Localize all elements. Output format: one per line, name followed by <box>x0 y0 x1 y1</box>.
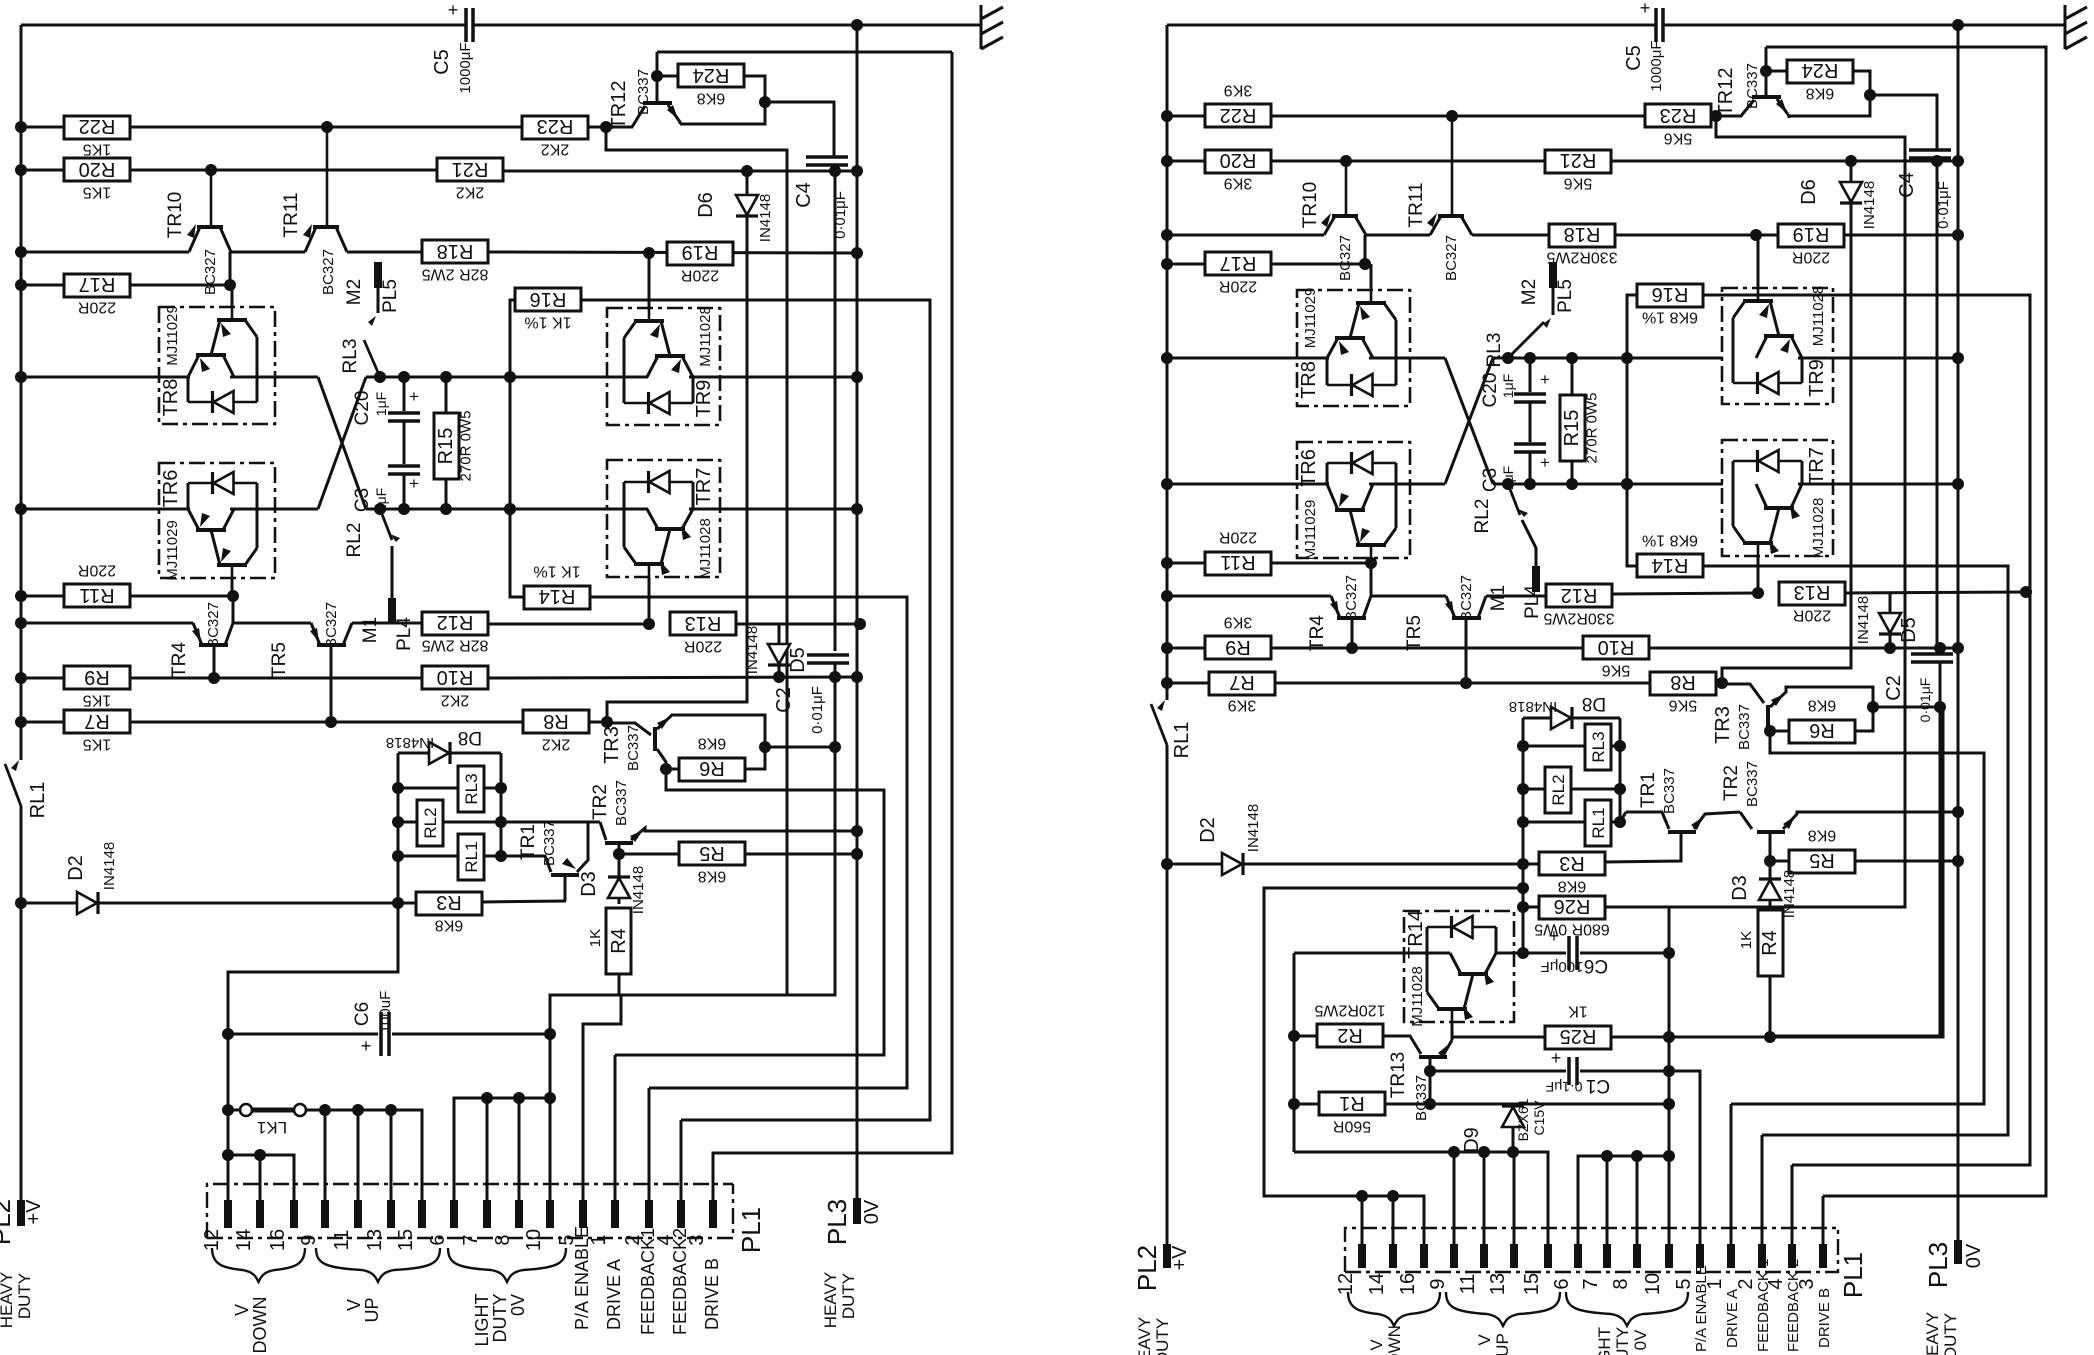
connector PL1 outline <box>207 1184 733 1238</box>
svg-text:TR8: TR8 <box>160 379 182 417</box>
svg-text:D2: D2 <box>1197 817 1219 843</box>
transistor TR9 block <box>607 308 720 425</box>
svg-text:C4: C4 <box>1896 172 1918 198</box>
svg-text:+: + <box>361 1036 372 1056</box>
resistor R25 <box>1545 1026 1611 1049</box>
svg-text:+: + <box>409 474 419 493</box>
svg-text:TR7: TR7 <box>693 468 715 506</box>
svg-text:TR5: TR5 <box>1404 615 1425 651</box>
svg-text:6K8 1%: 6K8 1% <box>1642 309 1698 326</box>
transistor TR7 block <box>1722 440 1833 556</box>
svg-text:TR11: TR11 <box>1406 182 1427 227</box>
svg-text:IN4818: IN4818 <box>386 734 434 751</box>
relay coil RL2 <box>398 821 417 824</box>
svg-text:D3: D3 <box>1729 875 1751 901</box>
wire R9/R10 row y648 right <box>1167 647 1205 650</box>
transistor TR11 <box>1430 216 1441 235</box>
transistor TR14 block <box>1404 911 1514 1022</box>
wire row y235 right <box>1167 234 1324 237</box>
svg-text:6K8: 6K8 <box>435 917 464 934</box>
svg-text:BC337: BC337 <box>613 780 630 826</box>
svg-text:5: 5 <box>1673 1278 1695 1289</box>
svg-text:R20: R20 <box>1220 149 1257 171</box>
resistor R16 <box>515 288 581 311</box>
wire pin4 feedback2 <box>680 1120 683 1200</box>
brace <box>1348 1292 1440 1326</box>
resistor R19 <box>667 242 733 265</box>
svg-text:R8: R8 <box>543 710 569 732</box>
resistor R8 <box>523 710 589 733</box>
svg-text:DUTY: DUTY <box>839 1273 858 1319</box>
svg-text:TR1: TR1 <box>518 824 539 860</box>
svg-text:TR7: TR7 <box>1806 447 1828 485</box>
svg-text:R3: R3 <box>436 891 462 913</box>
wire TR3 node to drive A drop x884 <box>615 769 884 1055</box>
svg-text:RL1: RL1 <box>1589 807 1608 838</box>
svg-text:R7: R7 <box>1229 671 1255 693</box>
svg-text:12: 12 <box>201 1229 223 1251</box>
svg-text:R20: R20 <box>79 158 116 180</box>
svg-text:5K6: 5K6 <box>1669 697 1698 714</box>
svg-text:220R: 220R <box>1219 278 1257 295</box>
svg-text:C3: C3 <box>1480 468 1501 492</box>
svg-text:TR11: TR11 <box>281 192 302 237</box>
svg-text:+V: +V <box>23 1199 45 1225</box>
transistor TR3 <box>653 727 657 751</box>
relay contact RL3 <box>377 288 380 313</box>
svg-text:R6: R6 <box>1809 719 1835 741</box>
resistor R22 <box>64 116 130 139</box>
resistor R7 <box>64 710 130 733</box>
svg-text:MJ11028: MJ11028 <box>1409 966 1426 1027</box>
right schematic: +V bus <box>1166 25 1169 700</box>
svg-text:220R: 220R <box>78 562 116 579</box>
brace <box>448 1248 566 1282</box>
svg-text:D5: D5 <box>787 647 809 673</box>
wire C2 to junction rail y995 <box>550 677 835 1200</box>
svg-text:11: 11 <box>331 1230 353 1251</box>
svg-text:V: V <box>232 1304 252 1316</box>
connector pins <box>224 1200 232 1228</box>
resistor R24 <box>678 64 744 87</box>
wire R20 row y161 right <box>1167 160 1205 163</box>
svg-text:DUTY: DUTY <box>490 1294 510 1343</box>
svg-text:R23: R23 <box>1660 104 1697 126</box>
svg-text:RL3: RL3 <box>462 773 481 804</box>
svg-text:BC337: BC337 <box>1413 1075 1430 1121</box>
svg-text:2: 2 <box>1735 1278 1757 1289</box>
svg-text:R5: R5 <box>1809 849 1835 871</box>
svg-text:7: 7 <box>1580 1278 1602 1289</box>
wire R7/R8 row y722 <box>21 721 64 724</box>
transistor TR6 block <box>1297 442 1410 558</box>
svg-text:BC327: BC327 <box>1337 235 1354 281</box>
svg-text:+: + <box>1549 926 1560 946</box>
link LK1 <box>222 1104 234 1116</box>
svg-text:PL1: PL1 <box>736 1207 766 1253</box>
transistor TR4 <box>232 596 235 623</box>
svg-text:R17: R17 <box>79 273 116 295</box>
svg-text:D3: D3 <box>578 871 600 897</box>
svg-text:120R2W5: 120R2W5 <box>1314 1002 1385 1019</box>
svg-text:R26: R26 <box>1554 895 1591 917</box>
svg-text:1μF: 1μF <box>373 488 389 512</box>
svg-text:R16: R16 <box>530 288 567 310</box>
resistor R12 <box>422 612 488 635</box>
wire RL2 row to TR1/TR2 <box>501 821 600 824</box>
svg-text:MJ11029: MJ11029 <box>1302 500 1319 561</box>
plug PL5 / M2 right <box>1549 262 1557 288</box>
resistor R6 <box>679 758 745 781</box>
svg-text:D5: D5 <box>1898 617 1920 643</box>
wire crossover X <box>318 377 366 509</box>
resistor R6 loop <box>660 763 672 775</box>
transistor TR6 block <box>159 463 275 578</box>
svg-text:PL1: PL1 <box>1838 1252 1868 1298</box>
relay coil RL2 right <box>1523 788 1545 791</box>
wire R16 row to feedback drop x930 <box>580 300 930 1120</box>
svg-text:3K9: 3K9 <box>1224 175 1253 192</box>
wire coil rail down to R26/C6 <box>1522 864 1525 953</box>
svg-text:11: 11 <box>1457 1274 1479 1295</box>
wire TR12 base to drop x1905 <box>1608 116 1905 907</box>
svg-text:TR4: TR4 <box>169 642 190 678</box>
resistor R11 <box>1205 552 1271 575</box>
svg-text:TR6: TR6 <box>160 470 182 508</box>
svg-text:RL3: RL3 <box>340 339 361 374</box>
svg-text:BC327: BC327 <box>1443 235 1460 281</box>
svg-text:BC337: BC337 <box>635 69 652 115</box>
svg-text:PL4: PL4 <box>1522 585 1543 619</box>
resistor R18 <box>1549 224 1615 247</box>
svg-text:TR6: TR6 <box>1298 449 1320 487</box>
resistor R9 <box>1205 636 1271 659</box>
wire TR9 base from R19 row <box>648 253 651 308</box>
svg-text:RL2: RL2 <box>421 807 440 838</box>
connector PL3 pin <box>853 1198 861 1224</box>
wire row y623 with R12 R13 <box>21 622 193 625</box>
svg-text:BC337: BC337 <box>1744 63 1761 109</box>
svg-text:D8: D8 <box>458 727 482 748</box>
wire TR6 base to R11 row <box>231 578 234 596</box>
svg-text:560R: 560R <box>1333 1118 1371 1135</box>
svg-text:9: 9 <box>1427 1278 1449 1289</box>
wire pin2 feedback1 right <box>1761 1135 1764 1244</box>
wire emitter-collector row y252 <box>21 251 189 254</box>
svg-text:IN4148: IN4148 <box>744 626 761 674</box>
svg-text:13: 13 <box>1487 1273 1509 1295</box>
svg-text:BZX61: BZX61 <box>1515 1098 1531 1141</box>
wire R16 row to feedback2 drop right <box>1703 295 2030 1165</box>
svg-text:C5: C5 <box>1623 45 1645 71</box>
resistor R13 <box>670 612 736 635</box>
svg-text:R6: R6 <box>699 757 725 779</box>
transistor TR1 right <box>1668 830 1696 834</box>
wire top +V rail right <box>1167 24 1656 27</box>
wire pin4 feedback2 right <box>1791 1165 1794 1244</box>
resistor R14 <box>524 586 590 609</box>
svg-text:DUTY: DUTY <box>1941 1313 1960 1355</box>
svg-text:R15: R15 <box>1561 410 1583 447</box>
resistor R15 right <box>1571 358 1574 395</box>
resistor R15 <box>445 377 448 413</box>
svg-text:0·1μF: 0·1μF <box>1546 1079 1583 1095</box>
svg-text:+: + <box>409 387 419 406</box>
svg-text:RL2: RL2 <box>344 523 365 558</box>
svg-text:R4: R4 <box>1759 930 1781 956</box>
brace <box>1566 1292 1688 1326</box>
transistor TR9 block <box>1722 288 1833 404</box>
svg-text:V: V <box>1367 1339 1386 1351</box>
svg-text:1K 1%: 1K 1% <box>524 314 571 331</box>
svg-text:TR12: TR12 <box>1715 68 1737 117</box>
svg-text:PL2: PL2 <box>1132 1245 1162 1291</box>
svg-text:5K6: 5K6 <box>1564 175 1593 192</box>
wire C1 row <box>1424 1065 1436 1077</box>
wire V-down feed jog right <box>1264 888 1523 1244</box>
svg-text:1K: 1K <box>1738 931 1755 949</box>
svg-text:M1: M1 <box>1488 585 1509 611</box>
svg-text:R22: R22 <box>1220 104 1257 126</box>
capacitor C3 right <box>1529 402 1532 442</box>
resistor R4 <box>606 908 631 974</box>
plug PL5 / M2 <box>374 262 382 288</box>
connector PL3 pin right <box>1954 1240 1962 1264</box>
capacitor C20 <box>403 377 406 411</box>
transistor TR5 right <box>1452 616 1481 620</box>
wire TR8 base from R17 row <box>231 285 234 307</box>
diode D2 <box>21 902 77 905</box>
svg-text:220R: 220R <box>684 638 722 655</box>
0V bus right <box>1957 25 1960 1240</box>
svg-text:R14: R14 <box>1652 554 1689 576</box>
resistor R20 <box>1205 150 1271 173</box>
svg-text:DUTY: DUTY <box>1153 1318 1172 1355</box>
svg-text:TR10: TR10 <box>165 192 186 238</box>
svg-text:9: 9 <box>298 1234 320 1245</box>
wire TR3 node to drive A drop right <box>1731 731 1984 1104</box>
resistor R2 <box>1317 1024 1383 1047</box>
resistor R5 <box>679 842 745 865</box>
svg-text:LIGHT: LIGHT <box>472 1293 492 1346</box>
transistor TR2 right <box>1757 830 1785 834</box>
svg-text:R17: R17 <box>1220 252 1257 274</box>
wire light duty rail right <box>1578 1156 1669 1244</box>
svg-text:RL1: RL1 <box>462 841 481 872</box>
svg-text:6: 6 <box>427 1234 449 1245</box>
svg-text:TR8: TR8 <box>1298 361 1320 399</box>
zener diode D9 <box>1502 1107 1524 1127</box>
svg-text:P/A ENABLE: P/A ENABLE <box>572 1226 592 1330</box>
resistor R15 <box>1560 395 1585 461</box>
brace <box>1446 1292 1560 1326</box>
svg-text:R10: R10 <box>1598 636 1635 658</box>
svg-text:R11: R11 <box>79 584 114 606</box>
svg-text:DUTY: DUTY <box>15 1273 34 1319</box>
svg-text:1μF: 1μF <box>1500 374 1516 398</box>
svg-text:220R: 220R <box>1219 529 1257 546</box>
diode D8 <box>398 752 429 755</box>
resistor row R22 y127 <box>21 126 64 129</box>
wire R9/R10 row y678 <box>21 677 64 680</box>
wire R17 row y285 <box>21 284 64 287</box>
svg-text:D6: D6 <box>695 192 717 218</box>
svg-text:PL3: PL3 <box>822 1199 852 1245</box>
resistor R26 <box>1539 896 1605 919</box>
svg-text:330R2W5: 330R2W5 <box>1543 610 1614 627</box>
wire R24 node to C4 <box>765 102 834 157</box>
svg-text:IN4818: IN4818 <box>1509 698 1557 715</box>
svg-text:12: 12 <box>1335 1273 1357 1295</box>
wire: TR12 collector bus y52 <box>657 51 952 54</box>
svg-text:R7: R7 <box>84 710 110 732</box>
transistor TR3 right <box>1766 705 1770 729</box>
svg-text:2K2: 2K2 <box>542 736 571 753</box>
relay coil RL1 <box>398 855 458 858</box>
svg-text:6K8: 6K8 <box>1558 878 1587 895</box>
resistor R21 <box>1545 150 1611 173</box>
transistor TR10 <box>1324 216 1335 235</box>
svg-text:M1: M1 <box>360 617 381 643</box>
capacitor C2 <box>834 171 837 651</box>
resistor R15 <box>434 413 459 479</box>
svg-text:+: + <box>1551 1048 1562 1068</box>
resistor R14 right <box>1627 484 1637 566</box>
svg-text:R12: R12 <box>1561 584 1598 606</box>
svg-text:UP: UP <box>1493 1333 1512 1355</box>
svg-text:+V: +V <box>1169 1245 1191 1271</box>
svg-text:0·01μF: 0·01μF <box>809 686 826 734</box>
wire R1 row <box>1288 1098 1300 1110</box>
svg-text:680R 0W5: 680R 0W5 <box>1534 921 1610 938</box>
svg-text:6: 6 <box>1551 1278 1573 1289</box>
capacitor C4 right <box>1909 148 1951 152</box>
capacitor C2 right <box>1936 161 1939 648</box>
svg-text:R4: R4 <box>608 928 630 954</box>
svg-text:UP: UP <box>362 1297 382 1322</box>
svg-text:+: + <box>448 0 459 20</box>
wire pin2 feedback1 <box>648 1088 651 1200</box>
transistor TR4 right <box>1370 563 1373 596</box>
svg-text:270R 0W5: 270R 0W5 <box>1584 393 1601 464</box>
plug PL4 / M1 right <box>1522 520 1536 566</box>
svg-text:V: V <box>1475 1334 1494 1346</box>
svg-text:M2: M2 <box>344 279 365 305</box>
svg-text:1000μF: 1000μF <box>1648 40 1665 91</box>
svg-text:R11: R11 <box>1220 551 1255 573</box>
svg-text:TR2: TR2 <box>590 784 611 820</box>
svg-text:DRIVE B: DRIVE B <box>702 1258 722 1330</box>
svg-text:220R: 220R <box>78 299 116 316</box>
resistor R25 <box>1452 1036 1546 1039</box>
wire TR12 collector bus y47 right <box>1766 47 2046 1196</box>
wire R3 node to C6 column <box>228 903 398 1200</box>
resistor R14 <box>1637 554 1703 577</box>
svg-text:C20: C20 <box>1480 373 1501 408</box>
svg-text:FEEDBACK 2: FEEDBACK 2 <box>1785 1259 1802 1352</box>
svg-text:R19: R19 <box>1793 223 1830 245</box>
wire R17 row y264 right <box>1167 263 1205 266</box>
svg-text:PL2: PL2 <box>0 1199 16 1245</box>
svg-text:MJ11028: MJ11028 <box>1810 286 1827 347</box>
svg-text:1K5: 1K5 <box>83 184 112 201</box>
svg-text:BC337: BC337 <box>625 725 642 771</box>
svg-text:0·01μF: 0·01μF <box>1917 678 1933 723</box>
svg-text:270R 0W5: 270R 0W5 <box>458 411 475 482</box>
svg-text:16: 16 <box>267 1229 289 1251</box>
svg-text:1K5: 1K5 <box>83 736 112 753</box>
svg-text:330R2W5: 330R2W5 <box>1546 249 1617 266</box>
wire R14 row to feedback1 drop x907 <box>590 597 907 1088</box>
svg-text:BC337: BC337 <box>541 820 558 866</box>
resistor R24 <box>1787 60 1853 83</box>
svg-text:R12: R12 <box>437 611 474 633</box>
wire R2/R1 left rail <box>1293 953 1296 1152</box>
svg-text:8: 8 <box>492 1234 514 1245</box>
resistor R19 <box>1778 224 1844 247</box>
svg-text:BC337: BC337 <box>1744 761 1761 807</box>
svg-text:100μF: 100μF <box>1541 958 1584 975</box>
svg-text:PL5: PL5 <box>1555 279 1576 313</box>
svg-text:RL1: RL1 <box>27 782 49 819</box>
diode D3 right <box>1769 861 1772 878</box>
svg-text:0V: 0V <box>1631 1329 1650 1350</box>
resistor R13 <box>1779 582 1845 605</box>
svg-text:15: 15 <box>1521 1273 1543 1295</box>
svg-text:6K8: 6K8 <box>697 90 726 107</box>
resistor R18 <box>422 240 488 263</box>
svg-text:R3: R3 <box>1559 852 1585 874</box>
svg-text:R14: R14 <box>539 585 576 607</box>
svg-text:R23: R23 <box>537 115 574 137</box>
svg-text:TR3: TR3 <box>601 726 623 764</box>
resistor R17 <box>1205 252 1271 275</box>
resistor R21 <box>437 158 503 181</box>
svg-text:DUTY: DUTY <box>1613 1327 1632 1355</box>
resistor R24 and TR12 emitter loop <box>657 75 679 78</box>
svg-text:R24: R24 <box>693 64 730 86</box>
diode D5 <box>778 624 781 645</box>
svg-text:R10: R10 <box>437 666 474 688</box>
svg-text:1K: 1K <box>587 929 604 947</box>
diode D5 right <box>1889 593 1892 614</box>
svg-text:13: 13 <box>364 1229 386 1251</box>
svg-text:MJ11029: MJ11029 <box>164 520 181 581</box>
svg-text:1K 1%: 1K 1% <box>533 563 580 580</box>
wire row y596 with R12 R13 right <box>1167 595 1331 598</box>
svg-text:6K8: 6K8 <box>698 868 727 885</box>
svg-text:1K5: 1K5 <box>83 141 112 158</box>
svg-text:R21: R21 <box>1560 149 1597 171</box>
svg-text:R9: R9 <box>1225 636 1251 658</box>
capacitor C5 right <box>1654 8 1658 42</box>
svg-text:BC327: BC327 <box>323 602 340 648</box>
svg-text:TR4: TR4 <box>1307 615 1328 651</box>
wire R7/R8 row y683 right <box>1167 682 1209 685</box>
relay contact RL3 right <box>1552 288 1555 315</box>
wire main rail row y509 <box>21 508 190 511</box>
svg-text:+: + <box>1540 453 1550 472</box>
relay coil RL3 <box>398 787 458 790</box>
svg-text:DRIVE A: DRIVE A <box>1724 1289 1741 1348</box>
svg-text:D2: D2 <box>65 855 87 881</box>
transistor TR12 right <box>1765 47 1768 97</box>
transistor TR2 <box>605 841 633 845</box>
brace <box>316 1248 440 1282</box>
resistor R6 <box>1789 720 1855 743</box>
svg-text:BC327: BC327 <box>202 249 219 295</box>
capacitor C4 <box>806 155 848 159</box>
